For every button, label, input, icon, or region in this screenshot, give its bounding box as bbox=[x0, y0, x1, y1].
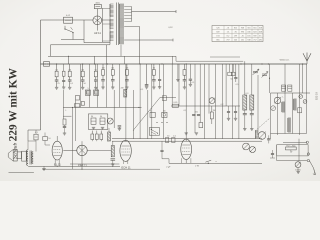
coil L3 bbox=[288, 118, 291, 132]
wire y160.6 bottom bbox=[277, 160, 308, 162]
transformer T1 taps bbox=[103, 8, 111, 42]
trimmer small 3 bbox=[271, 106, 276, 111]
wire x251.8 gnd bbox=[251, 119, 253, 129]
wire vertical x232.6 bbox=[232, 64, 234, 139]
enclosure tone filter box bbox=[277, 145, 308, 156]
label wave switch bbox=[280, 60, 290, 62]
svg-text:Wellensch.: Wellensch. bbox=[280, 60, 290, 62]
svg-text:2M: 2M bbox=[121, 87, 124, 89]
resistor R17 horizontal bbox=[286, 147, 297, 153]
wire vertical x89.6 bus-mid bbox=[89, 64, 91, 107]
wire AVC diagonal bbox=[133, 98, 176, 131]
wire bottom left y172.3 bbox=[9, 171, 34, 173]
capacitor drop x190.4 bbox=[189, 64, 192, 86]
wire T1 heater lead top bbox=[132, 10, 177, 13]
IF transformer IF1 bbox=[85, 90, 90, 95]
switch contact bottom bbox=[205, 160, 211, 164]
wire V3 bottom leads bbox=[123, 161, 127, 164]
wire vertical x186.2 bbox=[185, 64, 187, 139]
resistor R15 hatched bbox=[108, 128, 111, 141]
scattered component value labels bbox=[35, 68, 285, 163]
wire main HT bus bbox=[41, 63, 308, 65]
title text Schaub 229 W mit KW (rotated) bbox=[8, 68, 20, 159]
resistor R13 bbox=[95, 131, 98, 142]
variable capacitor gang C21 bbox=[243, 143, 250, 150]
resistor R16 hatched bbox=[111, 141, 114, 157]
svg-text:2 µF: 2 µF bbox=[166, 167, 171, 169]
svg-text:865: 865 bbox=[216, 40, 219, 42]
wire vertical x195.0 bbox=[194, 64, 196, 133]
transformer T1 primary winding bbox=[110, 4, 114, 45]
wire mid rail y106 bbox=[171, 105, 240, 107]
capacitor drop x159.6 bbox=[158, 64, 161, 89]
wire tick x68.5 bbox=[68, 56, 69, 64]
wire vertical x163.3 bbox=[162, 64, 164, 139]
IF transformer IF2 bbox=[94, 90, 99, 95]
wire vertical x215.4 bbox=[214, 64, 216, 139]
svg-text:194: 194 bbox=[216, 36, 219, 38]
capacitor C17 bbox=[243, 110, 247, 119]
capacitor C12 bbox=[118, 126, 122, 131]
svg-text:13,: 13, bbox=[227, 32, 230, 34]
tube V5 EL11 bbox=[52, 141, 62, 160]
svg-text:1M: 1M bbox=[102, 68, 105, 70]
resistor-capacitor drop x103.0 bbox=[101, 64, 105, 89]
svg-text:8,2: 8,2 bbox=[227, 36, 230, 38]
wire vertical x292.7 bbox=[292, 93, 294, 134]
wire x302.6 stub bbox=[302, 64, 304, 93]
resistor-capacitor drop x184.5 bbox=[183, 64, 187, 89]
wire tick x124.5 bbox=[124, 56, 126, 64]
wire x244.8 gnd bbox=[244, 119, 246, 129]
svg-text:628: 628 bbox=[259, 32, 262, 34]
label Fern-Nah bbox=[286, 144, 295, 147]
svg-text:030: 030 bbox=[247, 32, 250, 34]
oscillator circle bbox=[107, 118, 113, 124]
coupling capacitor C20 bbox=[34, 134, 38, 140]
transformer T1 tap fan bbox=[124, 7, 131, 22]
padder C11 bbox=[100, 118, 105, 129]
resistor box on rail 2 bbox=[81, 102, 84, 106]
wire step x169 bbox=[162, 159, 169, 164]
svg-text:815: 815 bbox=[234, 28, 237, 30]
speaker magnet box bbox=[17, 152, 21, 159]
svg-text:825 19: 825 19 bbox=[315, 92, 319, 100]
svg-text:543: 543 bbox=[234, 40, 237, 42]
resistor R12 bbox=[91, 131, 94, 142]
svg-text:37,: 37, bbox=[259, 36, 262, 38]
wire rail y61.2 bbox=[176, 56, 243, 61]
svg-text:797: 797 bbox=[226, 40, 229, 42]
output transformer T2 core bbox=[30, 151, 31, 165]
label 2W bbox=[195, 165, 199, 167]
trimmer small 1 bbox=[299, 95, 303, 99]
svg-text:948: 948 bbox=[247, 40, 250, 42]
wire V2 right bbox=[87, 149, 111, 151]
wire T1 tap lead y26.6 bbox=[124, 26, 140, 28]
resistor-capacitor drop x56.6 bbox=[55, 64, 59, 89]
wire to field coil bbox=[28, 130, 41, 141]
ground x146.6 bbox=[145, 87, 148, 89]
wire vertical x270.5 bbox=[270, 93, 272, 139]
wire vertical x151.8 bbox=[151, 64, 153, 139]
resistor-capacitor drop x95.8 bbox=[94, 64, 98, 89]
transformer T1 core bbox=[117, 3, 119, 46]
wire vertical x72.5 bbox=[72, 107, 74, 169]
output transformer T2 primary bbox=[26, 150, 28, 166]
wire vertical x172.2 bbox=[171, 64, 173, 106]
wire tuner rail y133.5 bbox=[271, 133, 307, 135]
wire bottom rail y163.3 bbox=[169, 162, 262, 164]
fuse F2 on bus bbox=[44, 62, 50, 66]
wire V1 down bbox=[96, 25, 98, 31]
resistor R9 bbox=[210, 106, 213, 124]
label ECH11 bbox=[121, 165, 131, 169]
wire vertical x139.7 bbox=[139, 27, 141, 64]
wire vertical x97.4 bus-mid bbox=[96, 64, 98, 107]
wire V1 anode up bbox=[96, 9, 98, 16]
svg-text:231: 231 bbox=[241, 40, 244, 42]
wire vertical x179.0 bbox=[178, 64, 180, 106]
padder C10 bbox=[91, 118, 96, 129]
wire primary bottom lead bbox=[84, 40, 110, 43]
wire tuner rail y93 bbox=[271, 92, 311, 94]
ground V3 bbox=[111, 160, 114, 166]
resistor R10 hatched bbox=[243, 61, 247, 110]
arrow out bbox=[309, 161, 315, 175]
wire rail y44.8 bbox=[51, 45, 111, 57]
variable capacitor C25 circle bbox=[258, 132, 266, 140]
terminal circle T1 bbox=[306, 141, 308, 143]
left side cap parts bbox=[270, 150, 275, 158]
label AZ11 bbox=[94, 31, 101, 35]
ground x244.8 bbox=[243, 129, 246, 131]
coil L1 bbox=[282, 102, 285, 112]
resistor R5 hatched bbox=[124, 89, 127, 97]
svg-text:,35: ,35 bbox=[241, 36, 244, 38]
capacitor C15 pair bbox=[192, 115, 200, 116]
wire V2 bottom bbox=[81, 156, 83, 170]
svg-text:908: 908 bbox=[241, 28, 244, 30]
wire T1 center tap bbox=[120, 45, 122, 57]
svg-text:Fern - Nah: Fern - Nah bbox=[286, 144, 295, 147]
resistor-capacitor drop x153.9 bbox=[152, 64, 156, 89]
wire tick x172.5 bbox=[172, 56, 174, 64]
variable capacitor gang A bbox=[274, 97, 281, 104]
label 2uF bbox=[166, 167, 171, 169]
svg-text:318: 318 bbox=[259, 28, 262, 30]
svg-text:10000: 10000 bbox=[295, 169, 301, 171]
svg-text:909: 909 bbox=[253, 36, 256, 38]
svg-text:824: 824 bbox=[253, 32, 256, 34]
wire vertical x63.3 bbox=[62, 90, 64, 119]
resistor R7 box bbox=[150, 112, 155, 117]
capacitor C24 near V5 bbox=[43, 133, 50, 146]
label 10000 bbox=[295, 169, 301, 171]
wire vertical x80.6 bus-mid bbox=[80, 64, 82, 107]
wire bottom rail y164 bbox=[70, 163, 119, 165]
field coil box bbox=[22, 151, 27, 161]
wire vertical x204.7 bbox=[204, 64, 206, 139]
wire bottom rail y166.3 bbox=[28, 165, 120, 167]
wire vertical x209.0 bbox=[208, 64, 210, 114]
capacitor drop x146.6 bbox=[141, 64, 149, 91]
capacitor C1 block bbox=[94, 2, 101, 8]
wire V2 left bbox=[63, 149, 77, 151]
trimmer cap arrow 2 bbox=[262, 72, 269, 78]
capacitor bottom x162 bbox=[160, 141, 163, 159]
switch S1 mains bbox=[64, 26, 73, 40]
tube V4 ECH11 II bbox=[181, 139, 192, 159]
wire switch bottom bbox=[61, 39, 84, 41]
capacitor C18 bbox=[250, 110, 254, 119]
trimmer circle mid bbox=[209, 98, 215, 104]
junction dots on bus bbox=[56, 63, 303, 64]
svg-text:757: 757 bbox=[253, 40, 256, 42]
capacitor C23 bbox=[267, 135, 270, 143]
svg-text:661: 661 bbox=[253, 28, 256, 30]
wire vertical x299.7 bbox=[299, 64, 301, 135]
capacitor C26 bbox=[227, 106, 230, 120]
box small mid x164 bbox=[162, 96, 166, 101]
short rail y116.2 bbox=[63, 115, 71, 117]
resistor R14 bbox=[100, 131, 103, 142]
wire bottom rail y169.2 bbox=[42, 168, 160, 170]
wire x258 drop bbox=[257, 75, 259, 135]
label EL11 bbox=[54, 162, 61, 166]
potentiometer P2 bbox=[295, 162, 301, 168]
wire y142.3 top bbox=[283, 141, 307, 143]
transformer T1 HT winding bbox=[119, 4, 124, 44]
wire vertical x306.5 bbox=[306, 64, 308, 134]
resistor-capacitor drop x82.7 bbox=[81, 64, 85, 89]
box small x77 bbox=[76, 96, 80, 101]
twin boxes x229.6 bbox=[228, 64, 235, 81]
resistor-capacitor drop x69.7 bbox=[68, 64, 72, 89]
terminal circle T2 bbox=[307, 153, 309, 155]
tube V3 ECH11 bbox=[120, 140, 131, 161]
wire vertical x200.2 bbox=[199, 64, 201, 123]
speaker LS bbox=[8, 150, 17, 162]
wire vertical x222.5 bbox=[222, 64, 224, 139]
capacitor C19 bbox=[111, 159, 116, 160]
label 6.3V bbox=[168, 27, 173, 29]
wire vertical x285 bbox=[284, 64, 286, 134]
junction bottom dots bbox=[57, 166, 114, 170]
box small on vert x299 bbox=[298, 108, 302, 113]
svg-text:199: 199 bbox=[234, 36, 237, 38]
wire vertical x125.9 bbox=[125, 64, 127, 140]
output transformer T2 secondary bbox=[32, 152, 33, 164]
svg-text:6,3V: 6,3V bbox=[168, 27, 173, 29]
svg-text:2 W: 2 W bbox=[195, 165, 199, 167]
tube V2 EBF11 bbox=[77, 145, 87, 155]
svg-text:609: 609 bbox=[216, 32, 219, 34]
trimmer small 2 bbox=[303, 100, 307, 104]
trimmer cap arrow 1 bbox=[253, 69, 260, 75]
trimmer C14 bbox=[162, 112, 167, 117]
resistor-capacitor drop x126.9 bbox=[125, 64, 129, 89]
ground mid x196 bbox=[195, 133, 198, 135]
variable capacitor gang C22 bbox=[250, 147, 256, 153]
wire V5 top bbox=[56, 136, 58, 141]
svg-text:,01: ,01 bbox=[227, 28, 230, 30]
wire above speaker bbox=[28, 130, 36, 152]
resistor-capacitor drop x112.8 bbox=[111, 64, 115, 89]
link dashes bbox=[255, 118, 270, 131]
wire vertical x75.7 bbox=[75, 100, 77, 141]
rectifier tube V1 AZ11 bbox=[93, 16, 102, 25]
terminal circle T3 bbox=[307, 159, 309, 161]
resistor R20 drop bbox=[63, 119, 66, 135]
resistor R11 hatched bbox=[250, 64, 254, 110]
top cluster boxes bbox=[282, 85, 292, 91]
small parts left of V4 bbox=[165, 138, 175, 143]
wire mid rail y107.4 bbox=[63, 107, 141, 108]
wire switch right vertical bbox=[83, 20, 85, 40]
wire vertical x106.5 bus-mid bbox=[106, 64, 108, 107]
wire tick x94.6 bbox=[94, 56, 95, 64]
svg-text:181: 181 bbox=[247, 36, 250, 38]
wire vertical x140.1 bbox=[139, 64, 141, 139]
wire V1 right bbox=[102, 19, 110, 21]
wire bottom rail B bbox=[112, 140, 262, 142]
wire vertical x114.2 bbox=[113, 90, 115, 128]
ground bottom right bbox=[297, 168, 300, 174]
svg-text:,90: ,90 bbox=[234, 32, 237, 34]
coil L5 bbox=[255, 131, 258, 139]
contact dots row bbox=[156, 122, 167, 123]
wire box left side bbox=[276, 145, 278, 161]
ground drop x177.9 bbox=[176, 64, 179, 82]
wire right rail y57 bbox=[210, 56, 240, 58]
wire vertical x226.1 bbox=[225, 64, 227, 106]
resistor R8 horizontal bbox=[172, 102, 178, 107]
resistor box on rail bbox=[74, 104, 80, 107]
svg-text:1W: 1W bbox=[213, 110, 216, 112]
wire vertical x147.8 bbox=[147, 90, 149, 139]
wire x269.5 drop bbox=[269, 64, 270, 93]
wire V3 top bbox=[125, 140, 127, 141]
svg-text:301: 301 bbox=[247, 28, 250, 30]
wire vertical x277.5 bbox=[277, 93, 279, 135]
wire HT vertical bbox=[106, 45, 108, 64]
svg-text:491: 491 bbox=[259, 40, 262, 42]
wire V4 top bbox=[185, 139, 187, 141]
ground bottom x44 bbox=[42, 166, 45, 170]
fuse F1 interference suppressor bbox=[64, 15, 73, 23]
wire V4 bottom leads bbox=[182, 158, 191, 163]
capacitor drop x235.8 bbox=[234, 64, 237, 82]
antenna symbol bbox=[303, 53, 311, 65]
coupling box C16 bbox=[199, 123, 203, 128]
svg-text:996: 996 bbox=[241, 32, 244, 34]
schematic id right edge bbox=[315, 92, 319, 100]
band switch box bbox=[149, 128, 159, 136]
oscillator section box bbox=[88, 114, 107, 129]
svg-text:526: 526 bbox=[216, 28, 219, 30]
wire mains left vertical bbox=[40, 20, 42, 130]
wire T1 heater lead bottom bbox=[124, 39, 173, 42]
capacitor C27 bbox=[234, 106, 237, 120]
wire vertical x133.7 bbox=[133, 90, 135, 139]
label EBF11 bbox=[78, 164, 87, 168]
table voltage chart bbox=[212, 26, 263, 42]
wire bottom rail A bbox=[112, 138, 262, 140]
svg-text:ECH 11: ECH 11 bbox=[121, 165, 131, 169]
ground x251.8 bbox=[250, 129, 253, 131]
wire vertical x119.4 bbox=[118, 64, 120, 107]
wire rail y56.3 bbox=[48, 55, 176, 57]
svg-text:2M: 2M bbox=[68, 69, 71, 71]
wire V5 bottom leads bbox=[55, 159, 59, 166]
svg-text:AZ 11: AZ 11 bbox=[94, 31, 101, 35]
wire vertical x238.9 bbox=[238, 64, 240, 139]
ground mid x186 bbox=[185, 133, 188, 135]
resistor-capacitor drop x63.7 bbox=[62, 64, 65, 89]
coil L2 bbox=[294, 99, 297, 110]
wire V2 top bbox=[81, 141, 83, 145]
wire x299 vertical bbox=[298, 139, 300, 161]
wire mains top horizontal bbox=[41, 19, 94, 21]
